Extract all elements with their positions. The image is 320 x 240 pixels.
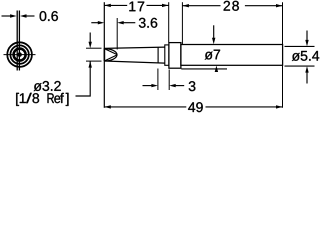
arrow o3.2 bottom (points up)	[89, 61, 92, 68]
label o5.4	[292, 51, 319, 61]
dim 17 extension right	[168, 2, 170, 42]
dim 49 line right seg	[206, 106, 283, 108]
dim 49 line left seg	[104, 106, 186, 108]
arrow 49 right (points right)	[276, 105, 283, 108]
arrow o5.4 top (points down)	[305, 40, 308, 47]
o5.4 extension bottom	[285, 65, 315, 67]
label o7	[205, 50, 220, 60]
chisel bevel arc	[104, 49, 117, 61]
chisel bevel lower facet line	[104, 55, 117, 61]
arrow o7 bottom (points up)	[215, 66, 218, 73]
collar rect	[169, 43, 181, 69]
shank junction line	[157, 47, 159, 63]
front view middle circle	[10, 45, 28, 63]
arrow 17 right (points right)	[162, 4, 169, 7]
dim 3.6 right arrow tail	[124, 22, 136, 24]
front view horizontal centerline	[4, 54, 36, 56]
arrow 0.6 right (points left at blade)	[20, 14, 27, 17]
shank bottom line	[104, 61, 165, 63]
o5.4 extension top	[285, 45, 315, 47]
label 3	[189, 81, 196, 91]
arrow o5.4 bottom (points up)	[305, 66, 308, 73]
label 28	[224, 1, 239, 11]
barrel rect (o7 x 28)	[181, 45, 283, 66]
dim 3 extension left	[157, 69, 159, 91]
dim 17 line left seg	[104, 4, 127, 6]
dim 3.6 left arrow tail	[91, 22, 98, 24]
arrow 3.6 right (points left)	[117, 21, 124, 24]
dim 0.6 left leader line	[2, 15, 12, 17]
arrow 17 left (points left)	[104, 4, 111, 7]
ø3.2 extension tick top	[86, 47, 102, 49]
chisel bevel upper facet line	[104, 49, 117, 55]
dim 28 / 49 extension right	[282, 2, 284, 108]
arrow 3 right (points left)	[169, 84, 176, 87]
dim 3 right arrow tail	[176, 85, 185, 87]
extension line 3.6 right	[116, 18, 118, 50]
shank top line	[104, 47, 165, 48]
dim 28 extension left	[181, 2, 183, 44]
dim 3 left arrow tail	[143, 85, 152, 87]
dim 0.6 right leader line	[26, 15, 35, 17]
blade edge right line (0.6 width)	[18, 11, 20, 71]
o5.4 dim line top seg	[306, 31, 308, 41]
ø3.2 dim upper line	[89, 33, 91, 43]
arrow o3.2 top (points down)	[89, 42, 92, 49]
step section rect	[165, 45, 169, 65]
arrow 0.6 left (points right at blade)	[10, 14, 17, 17]
arrow 28 left (points left)	[182, 4, 189, 7]
arrow 3 left (points right)	[151, 84, 158, 87]
label 3.6	[139, 18, 157, 28]
label [1/8 Ref]	[16, 93, 68, 106]
label o3.2	[34, 81, 61, 91]
front view inner circle (shank dia)	[14, 49, 26, 61]
blade edge left line (0.6 width)	[16, 11, 18, 71]
leader from ø3.2 label to side view	[76, 61, 91, 96]
o5.4 dim line bottom seg	[306, 72, 308, 84]
dim 28 line left seg	[182, 5, 220, 7]
arrow o7 top (points down)	[212, 38, 215, 45]
chisel edge thick segment	[103, 48, 105, 61]
o7 bottom leader line	[181, 68, 227, 70]
ø3.2 extension tick bottom	[86, 60, 102, 62]
o7 top leader arrow line	[213, 25, 215, 38]
arrow 49 left (points left)	[104, 105, 111, 108]
label 0.6	[40, 11, 58, 21]
front view center dot	[17, 52, 22, 57]
side view left vertical (chisel edge + extension line)	[103, 2, 105, 108]
dim 17 line right seg	[147, 4, 169, 6]
arrow 28 right (points right)	[276, 4, 283, 7]
front view outer circle (barrel dia)	[7, 42, 32, 67]
label 17	[129, 2, 144, 12]
label 49	[188, 102, 203, 112]
dim 3 extension right	[168, 70, 170, 91]
arrow 3.6 left (points right)	[98, 21, 105, 24]
dim 28 line right seg	[245, 5, 283, 7]
